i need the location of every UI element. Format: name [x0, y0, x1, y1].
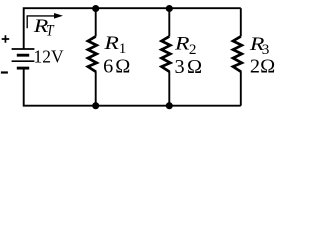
R3 branch wire bottom: [240, 71, 242, 106]
node dot R2 top: [166, 5, 173, 12]
R1 branch wire top: [95, 8, 97, 36]
resistor R1 zigzag: [88, 36, 97, 71]
battery E (12 V source): [12, 49, 35, 68]
svg-text:3: 3: [175, 56, 185, 78]
resistor R3 zigzag: [233, 36, 242, 71]
plus sign: [2, 35, 10, 43]
svg-text:6: 6: [103, 56, 113, 78]
R2 branch wire bottom: [168, 71, 170, 106]
RT arrowhead: [54, 13, 63, 19]
wire: bottom bus + left branch lower (node b): [24, 68, 241, 106]
svg-text:2: 2: [250, 55, 260, 77]
R2 branch wire top: [168, 8, 170, 36]
svg-text:R: R: [103, 32, 119, 53]
svg-text:R: R: [174, 33, 190, 54]
resistor R2 zigzag: [162, 36, 171, 71]
RT arrow: [27, 16, 55, 28]
svg-text:Ω: Ω: [187, 56, 202, 78]
svg-text:12V: 12V: [34, 46, 64, 67]
svg-text:Ω: Ω: [260, 55, 275, 77]
svg-text:T: T: [46, 23, 55, 40]
minus sign: [1, 71, 8, 73]
svg-text:1: 1: [119, 40, 127, 57]
svg-text:Ω: Ω: [115, 56, 130, 78]
node dot R1 bottom: [92, 102, 99, 109]
node dot R1 top: [92, 5, 99, 12]
wire: left branch upper + top bus (node a): [24, 8, 241, 49]
R1 branch wire bottom: [95, 71, 97, 106]
node dot R2 bottom: [166, 102, 173, 109]
R3 branch wire top: [240, 8, 242, 36]
